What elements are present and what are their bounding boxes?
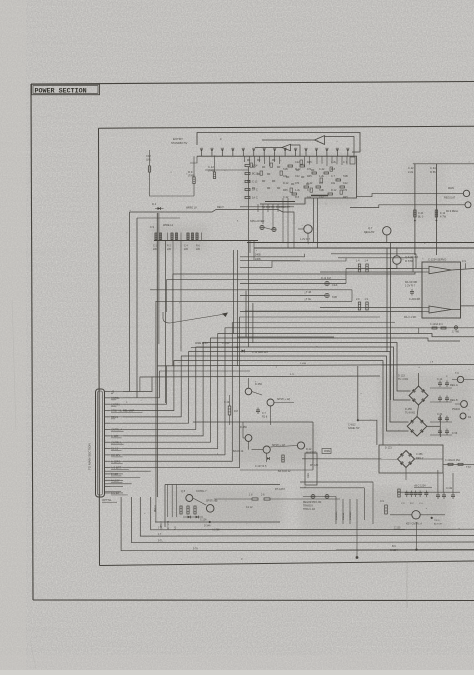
wire spst bottom <box>240 465 319 470</box>
svg-text:WIRE L2: WIRE L2 <box>163 224 174 227</box>
svg-text:△T·8e: △T·8e <box>304 298 312 301</box>
wire bus B1 with diode taps D1-D15 <box>190 148 352 170</box>
svg-text:R·12: R·12 <box>295 168 301 171</box>
svg-text:C1·L2: C1·L2 <box>246 506 253 509</box>
svg-text:J·TL: J·TL <box>158 528 163 530</box>
labels rotated under R51 <box>155 505 177 530</box>
transistor Q4 <box>298 225 312 243</box>
trimmer VR2 TAB <box>240 293 337 299</box>
svg-text:Q·5: Q·5 <box>181 490 186 493</box>
schematic frame (inner) <box>99 126 474 565</box>
svg-text:C12: C12 <box>319 196 324 199</box>
wire left drops box B <box>156 301 177 522</box>
svg-text:R45: R45 <box>283 189 288 192</box>
wire bundle W5 <box>188 352 408 423</box>
wire bottom rail 2 <box>140 497 474 536</box>
svg-text:R45: R45 <box>307 175 312 178</box>
box driver unit <box>165 485 280 528</box>
diode D45 <box>431 517 443 526</box>
svg-text:C·34: C·34 <box>430 166 436 170</box>
wire drop dot <box>356 499 399 559</box>
capacitor C2 (LV) <box>146 150 151 172</box>
svg-text:470: 470 <box>307 168 312 171</box>
svg-text:C·9: C·9 <box>380 500 385 503</box>
wire bus B2 drops <box>173 241 254 366</box>
wire bottom right rail <box>336 522 474 551</box>
capacitor bank CB4 <box>430 429 458 436</box>
svg-text:C12: C12 <box>343 182 348 185</box>
svg-text:POWER SECTION: POWER SECTION <box>35 87 87 95</box>
svg-text:REG·A: REG·A <box>450 384 458 387</box>
wire drops to rails <box>294 196 328 249</box>
transistor Q8b <box>350 202 471 213</box>
svg-text:MAIN: MAIN <box>448 187 454 190</box>
svg-text:SPST(+·12): SPST(+·12) <box>277 398 290 401</box>
svg-text:REG: REG <box>307 473 310 478</box>
svg-text:C·123A R·4: C·123A R·4 <box>430 323 443 326</box>
capacitor C22 <box>435 210 446 221</box>
svg-text:D·456: D·456 <box>255 383 262 386</box>
wire curve arrow <box>163 312 228 323</box>
svg-text:RA·3 1·9R: RA·3 1·9R <box>404 316 416 319</box>
capacitor C27 <box>256 408 268 419</box>
resistor R3 <box>188 156 195 196</box>
svg-text:C·12Y R·5: C·12Y R·5 <box>255 465 267 468</box>
capacitor row C43-C47 <box>397 491 460 506</box>
svg-text:R·STR: R·STR <box>405 259 413 263</box>
transistor Q3 <box>270 442 316 455</box>
svg-text:PWR·D: PWR·D <box>452 408 460 411</box>
label servo lower <box>404 316 416 319</box>
wire row C1 <box>320 307 422 309</box>
resistor R26 <box>224 395 239 425</box>
svg-text:220: 220 <box>196 248 201 251</box>
svg-text:TU·8 W2: TU·8 W2 <box>405 412 416 415</box>
diode D21 <box>255 453 291 473</box>
transistor Q14 power <box>390 511 445 526</box>
svg-text:R·8: R·8 <box>331 168 336 171</box>
svg-text:ACTIVE: ACTIVE <box>434 523 442 526</box>
wire left drop <box>150 172 195 196</box>
wire column K2 <box>430 164 436 255</box>
svg-text:REG·2: REG·2 <box>416 457 424 460</box>
resistor R2 (TAB) <box>208 156 216 178</box>
svg-text:OPT'NL: OPT'NL <box>102 498 112 502</box>
svg-text:C·456: C·456 <box>416 453 423 456</box>
trimmer pair VR5 <box>303 495 336 512</box>
svg-text:1·2V R·7: 1·2V R·7 <box>405 285 416 288</box>
resistor bank R11-R17 on bus B2 <box>150 224 258 251</box>
label +B C1234 <box>414 485 432 488</box>
wire op-amp U1 feedback <box>325 137 356 165</box>
wire bundle W3 <box>203 343 411 392</box>
svg-text:9·TL: 9·TL <box>158 541 163 543</box>
label TO MAIN SECTION <box>88 443 92 470</box>
svg-text:R·12: R·12 <box>331 189 337 192</box>
border frame (outer) <box>31 82 474 601</box>
wire rail +B2 <box>254 247 474 249</box>
svg-text:T·67: T·67 <box>466 467 471 469</box>
svg-text:STANDBY-5V: STANDBY-5V <box>171 141 188 145</box>
wire row A0b <box>167 280 347 312</box>
wire bottom rail 3 <box>132 497 474 543</box>
svg-text:R·9: R·9 <box>188 170 193 174</box>
svg-text:1A·C: 1A·C <box>252 189 258 192</box>
svg-text:TAB: TAB <box>283 168 288 171</box>
wire row A1 <box>331 254 422 269</box>
svg-text:240B: 240B <box>255 258 261 261</box>
svg-text:240B: 240B <box>255 254 261 257</box>
svg-text:R·8: R·8 <box>234 410 239 413</box>
capacitor bank CB3 <box>427 413 452 437</box>
label OPTNL <box>102 498 117 502</box>
svg-text:C·7: C·7 <box>331 175 336 178</box>
bridge rectifier BR2 <box>405 408 427 436</box>
scan specks <box>104 138 470 559</box>
wire bundle W1 <box>218 334 474 337</box>
svg-text:KEY·CNTRL·A: KEY·CNTRL·A <box>406 523 422 526</box>
svg-text:MODEM: MODEM <box>350 511 352 520</box>
transistor Q21 <box>245 378 262 395</box>
capacitor C31 <box>405 281 421 301</box>
svg-text:220: 220 <box>184 248 189 251</box>
paper crease right <box>406 561 408 608</box>
svg-text:R·8: R·8 <box>295 196 300 199</box>
trimmer VR3 <box>260 225 276 231</box>
svg-text:MY 12V: MY 12V <box>310 465 319 467</box>
svg-text:REGOR PRO·OR: REGOR PRO·OR <box>303 502 322 504</box>
svg-text:1A·C: 1A·C <box>252 197 258 200</box>
svg-text:Club: Club <box>332 283 338 287</box>
svg-text:C·12: C·12 <box>252 181 258 184</box>
svg-text:MEDIA: MEDIA <box>342 513 345 520</box>
wire connector lower pins <box>105 471 151 491</box>
transistor Q9 main <box>386 248 419 269</box>
wire row A0 <box>173 272 415 366</box>
wire cluster drops <box>258 198 288 248</box>
svg-text:220: 220 <box>153 248 158 251</box>
svg-text:D·12 (LV): D·12 (LV) <box>321 277 331 280</box>
labels rotated low <box>336 511 352 520</box>
svg-text:(LV): (LV) <box>146 158 151 162</box>
wire row B2 <box>150 289 352 291</box>
trimmer VR1 Club <box>321 277 338 287</box>
svg-text:C·7: C·7 <box>307 189 312 192</box>
box regulator tall <box>305 453 317 485</box>
wire verticals low <box>336 497 350 525</box>
wire long H2 <box>140 374 380 392</box>
svg-text:EXTRY: EXTRY <box>173 137 183 141</box>
svg-text:PA·9 REGL: PA·9 REGL <box>446 210 459 213</box>
box PSU sub <box>379 445 443 473</box>
svg-text:2·4SB: 2·4SB <box>300 363 307 365</box>
wire row A2 <box>320 258 422 272</box>
wire bottom rail 4 <box>121 497 474 551</box>
svg-text:NAME·TW: NAME·TW <box>348 427 360 430</box>
scan density shading <box>150 152 472 533</box>
capacitor bank CB2 <box>430 396 458 403</box>
wire vertical V-R1 <box>390 243 392 401</box>
wire rail left pair <box>130 212 188 398</box>
svg-text:△T·48: △T·48 <box>304 291 312 294</box>
transistor Q2 <box>233 444 285 453</box>
op-amp U2 <box>262 136 325 145</box>
wire rail 240B-1 <box>240 254 305 257</box>
resistor R43 R44 <box>356 298 369 310</box>
IC block outline <box>260 156 357 209</box>
wire mid link <box>240 206 294 208</box>
wire vertical D1 rail <box>157 213 159 497</box>
svg-text:C·22: C·22 <box>319 168 325 171</box>
wire long H1 <box>158 362 474 366</box>
svg-text:R45: R45 <box>343 196 348 199</box>
svg-text:C·9: C·9 <box>150 226 155 229</box>
svg-text:470: 470 <box>295 182 300 185</box>
wire bundle W2 <box>210 338 460 341</box>
wire bundle W4 <box>196 347 411 400</box>
wire verticals mid <box>234 167 253 366</box>
resistor R52 R53 <box>214 488 340 500</box>
capacitor bank CB1 <box>430 378 458 388</box>
svg-text:WIRE LV: WIRE LV <box>186 206 197 210</box>
wire low H2 <box>300 488 364 520</box>
wire servo out A <box>452 260 474 270</box>
capacitor C21 <box>414 210 424 221</box>
op-amp U5B <box>422 306 452 313</box>
wire servo out B <box>452 306 474 310</box>
wire bundle W7 <box>174 361 419 446</box>
wire harness staircase <box>123 317 240 468</box>
svg-text:C·12: C·12 <box>208 165 214 169</box>
paper crease left <box>12 300 36 669</box>
svg-text:TAB: TAB <box>319 189 324 192</box>
svg-text:C·AR1/R8: C·AR1/R8 <box>409 298 421 301</box>
svg-text:C·1234 SERVO: C·1234 SERVO <box>428 258 446 262</box>
svg-text:C12: C12 <box>295 175 300 178</box>
label TA-8 <box>304 291 312 301</box>
wire row B3 <box>156 290 352 302</box>
transistor Q1 <box>240 422 252 450</box>
svg-text:J·T: J·T <box>158 534 162 536</box>
wire spillover <box>240 258 346 268</box>
svg-text:C·34: C·34 <box>437 413 443 416</box>
svg-text:R·12: R·12 <box>283 182 289 185</box>
wire column K1 <box>408 164 474 255</box>
IC block cluster wires <box>245 156 280 199</box>
svg-text:B·9: B·9 <box>392 545 396 548</box>
resistor R55 <box>380 489 400 514</box>
svg-text:C·7R6: C·7R6 <box>452 331 460 334</box>
svg-text:SPST(+B): SPST(+B) <box>206 500 217 503</box>
svg-text:C·9: C·9 <box>462 260 467 263</box>
op-amp U3 <box>255 144 300 156</box>
bridge rectifier BR3 <box>385 447 424 468</box>
svg-text:9·TL: 9·TL <box>290 374 295 376</box>
IC block cluster fill <box>247 160 343 194</box>
IC box U5 servo <box>422 258 461 319</box>
wire blkj <box>191 342 268 354</box>
label SPILLOVER <box>250 219 265 223</box>
svg-text:TRANS 9: TRANS 9 <box>303 505 313 508</box>
svg-text:C·12: C·12 <box>437 378 443 381</box>
svg-text:MODEM: MODEM <box>336 511 338 520</box>
svg-text:Q·7: Q·7 <box>368 226 373 230</box>
svg-text:CNT·PW: CNT·PW <box>168 520 170 530</box>
transistor Q5 <box>181 490 207 502</box>
wire harness rows <box>159 311 400 371</box>
svg-text:1·2k: 1·2k <box>295 189 301 192</box>
resistor R41 R42 <box>356 260 369 273</box>
wire bottom rail 1 <box>151 497 474 530</box>
wire row C2 <box>240 311 422 313</box>
labels bottom rails <box>158 528 198 551</box>
svg-text:470: 470 <box>343 189 348 192</box>
svg-text:REG·B: REG·B <box>450 399 458 402</box>
svg-text:TO MAIN SECTION: TO MAIN SECTION <box>88 443 92 470</box>
svg-text:C·123A R·45A: C·123A R·45A <box>445 459 460 462</box>
svg-text:C·22: C·22 <box>307 182 313 185</box>
transistor Q13 <box>460 413 472 419</box>
svg-text:THRU·L 4R: THRU·L 4R <box>303 509 315 511</box>
wire box B bottom <box>155 521 280 532</box>
resistor R51 bank <box>180 506 196 514</box>
svg-text:C·56: C·56 <box>452 432 458 435</box>
connector CN1 <box>96 389 143 497</box>
transistor Q22 <box>267 398 294 425</box>
capacitor C41 <box>436 470 455 499</box>
wire vertical x165 <box>165 241 167 404</box>
transistor Q12 <box>452 401 467 411</box>
resistor R61 R62 row <box>430 323 460 334</box>
svg-text:REGULAT: REGULAT <box>444 197 456 200</box>
svg-text:BACK 12: BACK 12 <box>233 450 244 453</box>
box switch unit <box>193 422 313 470</box>
wire low H1 <box>300 482 373 524</box>
svg-text:C·12A: C·12A <box>200 519 207 522</box>
wire junction J5 <box>348 366 377 445</box>
bridge rectifier BR1 <box>398 375 428 406</box>
svg-text:TAB: TAB <box>332 295 337 299</box>
svg-text:R1·8: R1·8 <box>262 416 268 419</box>
svg-text:R·56: R·56 <box>430 170 436 174</box>
svg-text:1·2k: 1·2k <box>319 175 325 178</box>
svg-text:D·34A: D·34A <box>204 525 211 528</box>
svg-text:BL·3: BL·3 <box>418 216 424 219</box>
transistor Q7 regulator <box>364 226 391 243</box>
wire serv drop <box>400 328 474 334</box>
svg-text:220: 220 <box>167 248 172 251</box>
diode D22 D23 <box>183 516 207 522</box>
svg-text:C·12: C·12 <box>224 401 230 404</box>
svg-text:9·TA: 9·TA <box>193 548 198 551</box>
label C123 low <box>394 528 405 530</box>
transistor Q8 <box>357 187 470 200</box>
svg-text:TU·4 W2: TU·4 W2 <box>398 378 409 381</box>
svg-text:Q·9 (MAIN): Q·9 (MAIN) <box>405 255 418 259</box>
wire LV line <box>186 206 294 225</box>
svg-text:D·1: D·1 <box>152 202 157 206</box>
wire rail 240B-2 <box>240 258 300 261</box>
wire right edge parts <box>443 459 474 469</box>
diode D1 <box>152 202 164 210</box>
svg-text:C12: C12 <box>295 161 300 164</box>
wire vertical V-R2 <box>386 248 388 352</box>
wire rail +B1 <box>247 242 474 244</box>
label EXTRY STANDBY-5V <box>171 137 188 145</box>
svg-text:D·456: D·456 <box>240 426 247 429</box>
IC block cluster parts <box>283 156 348 199</box>
op-amp U5A <box>422 266 452 274</box>
svg-text:BA·34 R·12: BA·34 R·12 <box>278 470 291 473</box>
svg-text:1·2V C·7: 1·2V C·7 <box>300 238 311 241</box>
svg-text:2·2k: 2·2k <box>408 170 414 174</box>
svg-text:D·123: D·123 <box>385 447 392 450</box>
svg-text:WIRE: WIRE <box>324 451 330 453</box>
svg-text:CNTRL·7: CNTRL·7 <box>196 490 207 493</box>
transistor Q11 <box>452 372 474 383</box>
svg-text:C12: C12 <box>146 154 151 158</box>
svg-text:C·12: C·12 <box>408 166 414 170</box>
box lower-right top edge <box>237 336 334 338</box>
svg-text:+B C·1234: +B C·1234 <box>414 485 426 488</box>
wire top rail <box>197 133 360 153</box>
svg-text:RT·CAST: RT·CAST <box>275 488 286 491</box>
svg-text:TAB: TAB <box>343 175 348 178</box>
svg-text:SPILLOVER: SPILLOVER <box>250 219 265 223</box>
svg-text:TW·9: TW·9 <box>434 520 440 522</box>
svg-text:4·7W: 4·7W <box>440 216 447 219</box>
svg-text:RECT: RECT <box>217 206 224 209</box>
wire bundle W6 <box>181 356 408 431</box>
title box POWER SECTION <box>32 84 100 95</box>
svg-text:C·12k: C·12k <box>446 488 453 490</box>
wire bridge3 leads <box>302 449 443 481</box>
transistor Q6 <box>193 498 253 512</box>
wire row B1 <box>240 268 346 283</box>
